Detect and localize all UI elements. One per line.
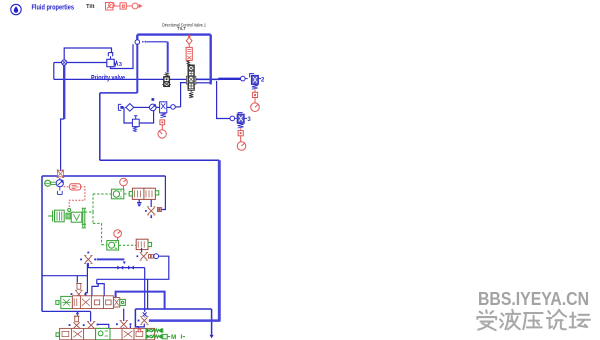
- svg-text:Fluid properties: Fluid properties: [32, 5, 75, 12]
- svg-text:BBS.IYEYA.CN: BBS.IYEYA.CN: [478, 288, 589, 309]
- svg-text:Priority valve: Priority valve: [91, 75, 125, 82]
- svg-text:3: 3: [247, 117, 251, 123]
- svg-text:M: M: [171, 334, 176, 340]
- svg-text:3: 3: [119, 62, 123, 68]
- svg-text:TILT: TILT: [177, 26, 186, 31]
- svg-text:2: 2: [261, 77, 265, 83]
- svg-text:Tilt: Tilt: [86, 4, 95, 10]
